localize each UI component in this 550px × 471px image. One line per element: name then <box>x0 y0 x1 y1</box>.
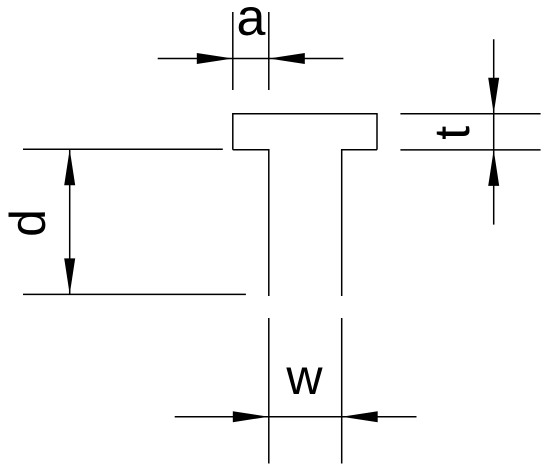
svg-text:t: t <box>424 126 480 140</box>
svg-text:a: a <box>237 0 266 47</box>
svg-text:w: w <box>285 349 323 405</box>
svg-text:d: d <box>0 209 56 237</box>
